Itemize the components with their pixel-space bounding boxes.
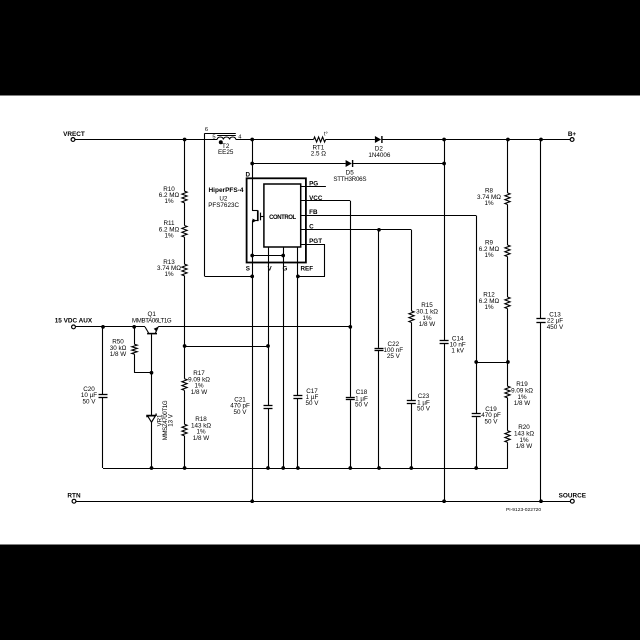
svg-text:15 VDC AUX: 15 VDC AUX [55, 317, 93, 324]
terminal VRECT [63, 131, 85, 142]
wire D2 to B+ [383, 139, 571, 141]
node junction Q1 base / R50 [150, 371, 154, 375]
resistor R50 30 kOhm 1/8 W [110, 327, 152, 373]
node junction bus at VR1 [150, 466, 154, 470]
svg-text:PGT: PGT [309, 238, 322, 245]
wire S to G internal link [252, 255, 283, 257]
svg-text:1%: 1% [484, 200, 494, 207]
svg-text:1%: 1% [484, 252, 494, 259]
thermistor RT1 2.5 ohm [311, 131, 328, 157]
wire T2 pin 6 down [204, 133, 206, 276]
black letterbox bar top [0, 0, 640, 96]
capacitor C23 1 uF 50 V [407, 393, 431, 412]
node junction bus at C21 [266, 466, 270, 470]
svg-text:1 kV: 1 kV [451, 347, 464, 354]
resistor R15 30.1 kOhm 1% 1/8 W [409, 302, 438, 328]
wire aux rail left [75, 326, 145, 328]
U2 pin D [245, 171, 250, 178]
svg-text:1/8 W: 1/8 W [514, 400, 531, 407]
node junction FB divider tap [506, 360, 510, 364]
resistor R10 6.2 MOhm 1% [159, 186, 187, 205]
capacitor C14 10 nF 1 kV [440, 336, 466, 355]
node junction top rail at R10 chain [183, 138, 187, 142]
capacitor C20 10 uF 50 V [81, 386, 108, 405]
node junction bus at C22 [377, 466, 381, 470]
terminal SOURCE [559, 492, 587, 503]
wire R8-R9-R12-R19-R20 chain [507, 140, 509, 469]
drawing number PI-9123-022720 [506, 507, 541, 513]
svg-text:PG: PG [309, 180, 318, 187]
svg-text:D: D [245, 171, 250, 178]
resistor R20 143 kOhm 1% 1/8 W [505, 424, 534, 450]
svg-text:1/8 W: 1/8 W [193, 435, 210, 442]
svg-text:450 V: 450 V [547, 324, 564, 331]
resistor R17 9.09 kOhm 1% 1/8 W [182, 370, 210, 396]
node junction bus at G [281, 466, 285, 470]
wire C pin line [301, 229, 412, 231]
node junction C13 line at RTN [539, 499, 543, 503]
node junction drain / D5 anode [250, 162, 254, 166]
svg-text:50 V: 50 V [83, 398, 97, 405]
wire D5 cathode to B+ branch [353, 163, 444, 165]
node junction top rail drain [250, 138, 254, 142]
terminal B+ [568, 131, 577, 142]
svg-text:50 V: 50 V [355, 402, 369, 409]
svg-text:1N4006: 1N4006 [368, 152, 391, 159]
node junction REF at PGT [296, 275, 300, 279]
svg-text:PFS7623C: PFS7623C [208, 202, 239, 209]
node junction FB at tap [474, 360, 478, 364]
capacitor C19 470 pF 50 V [472, 406, 501, 425]
svg-text:1/8 W: 1/8 W [110, 351, 127, 358]
node junction C14 line at RTN [442, 499, 446, 503]
wire PGT to REF [298, 244, 325, 276]
node junction bus at C17 [296, 466, 300, 470]
svg-text:MMBTA06LT1G: MMBTA06LT1G [132, 317, 172, 324]
svg-text:50 V: 50 V [485, 418, 499, 425]
svg-text:50 V: 50 V [306, 400, 320, 407]
svg-text:VRECT: VRECT [63, 131, 85, 138]
node junction C20 at aux [101, 325, 105, 329]
node junction C22 branch [377, 228, 381, 232]
node junction top rail C13 [539, 138, 543, 142]
wire T2 to RT1 [236, 139, 314, 141]
node junction S at RTN [250, 499, 254, 503]
svg-text:C: C [309, 223, 314, 230]
node junction top rail D5 cathode [442, 138, 446, 142]
U2 pin PGT [309, 238, 322, 245]
node junction bus at C23 [409, 466, 413, 470]
transistor MOSFET inside U2 [252, 210, 264, 222]
U2 pin S [246, 266, 250, 273]
svg-text:B+: B+ [568, 131, 577, 138]
terminal 15 VDC AUX [55, 317, 93, 328]
svg-text:50 V: 50 V [417, 406, 431, 413]
svg-text:13 V: 13 V [167, 413, 174, 426]
svg-text:2.5 Ω: 2.5 Ω [311, 151, 327, 158]
terminal RTN [67, 492, 81, 503]
wire divider to V link [185, 346, 268, 348]
svg-text:VCC: VCC [309, 195, 323, 202]
svg-text:HiperPFS-4: HiperPFS-4 [208, 187, 243, 194]
resistor R13 3.74 MOhm 1% [157, 259, 187, 278]
wire REF line [297, 247, 299, 468]
svg-text:RTN: RTN [67, 492, 81, 499]
U2 CONTROL box [264, 184, 301, 247]
svg-text:1%: 1% [164, 198, 174, 205]
svg-text:SOURCE: SOURCE [559, 492, 587, 499]
svg-text:1%: 1% [164, 233, 174, 240]
resistor R12 6.2 MOhm 1% [479, 292, 510, 311]
svg-text:25 V: 25 V [387, 353, 401, 360]
node junction top rail R8 [506, 138, 510, 142]
U2 labels HiperPFS-4 U2 PFS7623C [208, 187, 244, 209]
node junction D5 cathode [442, 162, 446, 166]
wire aux rail right [158, 326, 350, 328]
svg-text:1%: 1% [164, 271, 174, 278]
wire V line [268, 247, 270, 468]
svg-text:V: V [267, 266, 272, 273]
resistor R11 6.2 MOhm 1% [159, 220, 187, 239]
U2 pin V [267, 266, 272, 273]
capacitor C13 22 uF 450 V [536, 311, 564, 330]
U2 pin C [309, 223, 314, 230]
node junction VCC at aux rail [348, 325, 352, 329]
capacitor C22 100 nF 25 V [375, 341, 404, 360]
diode D5 STTH3R06S [333, 160, 366, 183]
node junction divider to V link [183, 344, 187, 348]
zener diode VR1 MMSZ4700T1G 13 V [147, 373, 174, 468]
U2 pin G [283, 266, 288, 273]
wire signal ground bus [103, 468, 508, 470]
svg-text:1%: 1% [484, 304, 494, 311]
resistor R19 9.09 kOhm 1% 1/8 W [505, 381, 533, 407]
wire C22 branch [378, 230, 380, 468]
resistor R9 6.2 MOhm 1% [479, 240, 510, 259]
svg-text:PI-9123-022720: PI-9123-022720 [506, 507, 541, 513]
capacitor C21 470 pF 50 V [230, 397, 272, 416]
wire divider tap link [476, 362, 508, 364]
svg-text:5: 5 [212, 134, 215, 140]
wire T2 pin 6 to S pin [205, 275, 254, 279]
resistor R18 143 kOhm 1% 1/8 W [182, 416, 211, 442]
node junction R50 at aux [132, 325, 136, 329]
svg-text:t°: t° [324, 131, 328, 137]
wire B+ branch down [444, 140, 446, 502]
U2 pin VCC [309, 195, 323, 202]
svg-text:S: S [246, 266, 250, 273]
svg-text:50 V: 50 V [234, 409, 248, 416]
wire RT1 to D2 [326, 139, 375, 141]
wire FB line [301, 216, 477, 469]
wire C13 branch down [540, 140, 542, 502]
wire G line [283, 247, 285, 468]
svg-text:6: 6 [205, 127, 208, 133]
svg-text:1/8 W: 1/8 W [419, 321, 436, 328]
wire D5 anode rail [252, 163, 345, 165]
wire RTN rail [76, 501, 571, 503]
black letterbox bar bottom [0, 545, 640, 640]
svg-text:CONTROL: CONTROL [269, 215, 296, 221]
transistor Q1 MMBTA06LT1G [132, 311, 172, 373]
svg-text:1/8 W: 1/8 W [191, 389, 208, 396]
inductor T2 EE25 [205, 127, 243, 156]
capacitor C17 1 uF 50 V [293, 388, 319, 407]
node junction S internal [250, 254, 254, 258]
node junction bus at C18 [348, 466, 352, 470]
wire C20 branch [102, 327, 104, 468]
resistor R8 3.74 MOhm 1% [477, 188, 510, 207]
wire S line [252, 221, 254, 502]
node junction bus at R18 [183, 466, 187, 470]
capacitor C18 1 uF 50 V [346, 389, 369, 408]
op-amp U2 outer box [247, 178, 306, 262]
svg-text:EE25: EE25 [218, 149, 234, 156]
svg-text:REF: REF [301, 266, 314, 273]
diode D2 1N4006 [368, 136, 391, 159]
wire VRECT to T2 [75, 139, 217, 141]
node junction G internal [281, 254, 285, 258]
wire drain node down to U2 [252, 140, 254, 211]
U2 pin PG [309, 180, 318, 187]
svg-text:STTH3R06S: STTH3R06S [333, 176, 366, 183]
U2 pin FB [309, 209, 318, 216]
svg-text:G: G [283, 266, 288, 273]
node junction V at divider link [266, 344, 270, 348]
node junction bus at C19 [474, 466, 478, 470]
wire R15-C23 branch [411, 230, 413, 468]
wire PG stub [301, 186, 326, 188]
svg-text:FB: FB [309, 209, 318, 216]
svg-text:1/8 W: 1/8 W [516, 443, 533, 450]
U2 pin REF [301, 266, 314, 273]
wire VCC line [301, 201, 351, 469]
wire R10-R11-R13-R17-R18 chain [184, 140, 186, 469]
